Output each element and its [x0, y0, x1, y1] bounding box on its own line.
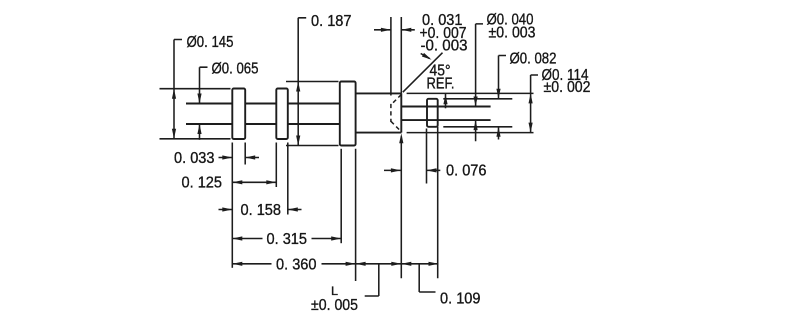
- ext line Ø0.114 top: [407, 92, 534, 94]
- ext line Ø0.145 top: [160, 88, 231, 90]
- shaft Ø0.065 segment left: [186, 104, 232, 125]
- 0.109 left arrow: [401, 262, 411, 266]
- dim 0.360 line: [232, 263, 355, 265]
- svg-text:0. 125: 0. 125: [182, 175, 223, 192]
- dim Ø0.114 leader+line: [531, 75, 538, 133]
- Ø0.145 dim down arrow bottom: [172, 129, 176, 139]
- dim 0.158 arrow tails: [219, 209, 302, 211]
- small up arrow on disc right ext: [399, 133, 403, 143]
- 0.031 right arrow: [381, 28, 391, 32]
- svg-text:Ø0. 065: Ø0. 065: [212, 61, 259, 78]
- dim 0.125 line: [232, 181, 276, 183]
- Ø0.082 bottom up arrow: [496, 127, 500, 137]
- 0.109 right arrow: [429, 262, 439, 266]
- Ø0.065 up arrow: [197, 124, 201, 134]
- dim body length line (L +/-0.005): [356, 263, 402, 265]
- svg-text:±0. 002: ±0. 002: [544, 79, 591, 96]
- leader +/-0.005: [365, 264, 379, 296]
- dim 0.315 line: [232, 238, 341, 240]
- ext flange2 left: [275, 143, 277, 188]
- ext line 0.031 left: [390, 17, 392, 96]
- Ø0.114 up arrow: [529, 93, 533, 103]
- Ø0.065 down arrow: [197, 94, 201, 104]
- 0.360 left arrow: [232, 262, 242, 266]
- svg-text:Ø0. 145: Ø0. 145: [187, 34, 234, 51]
- flange 2 (Ø0.145): [276, 89, 288, 140]
- dim 0.109 line: [401, 263, 438, 265]
- svg-text:0. 360: 0. 360: [276, 257, 317, 274]
- small up arrow near disc top: [443, 94, 447, 104]
- dim 0.031 arrow tails: [374, 29, 415, 31]
- ext line disc left (0.076): [426, 129, 428, 184]
- disc Ø0.082: [427, 99, 438, 127]
- ext flange3 right: [355, 149, 357, 281]
- Ø0.145 dim up arrow: [172, 89, 176, 99]
- dim Ø0.065 leader top: [200, 67, 208, 103]
- 0.187 up arrow: [296, 82, 300, 92]
- svg-text:±0. 005: ±0. 005: [311, 297, 358, 314]
- pin Ø0.040: [401, 107, 490, 121]
- leader 0.109: [419, 264, 435, 292]
- 0.315 right arrow: [331, 236, 341, 240]
- svg-text:REF.: REF.: [427, 76, 455, 93]
- 0.076 right arrow: [391, 168, 401, 172]
- svg-text:-0. 003: -0. 003: [421, 38, 468, 55]
- dim Ø0.040 leader: [476, 24, 483, 141]
- ext line 0.187 top: [286, 81, 339, 83]
- dim 0.076 arrow tails: [384, 169, 440, 171]
- dim Ø0.082 bottom stub: [498, 127, 500, 140]
- ext flange1 left: [231, 143, 233, 268]
- ext flange3 left: [340, 149, 342, 243]
- Ø0.040 up arrow: [474, 120, 478, 130]
- dim Ø0.082 leader: [499, 56, 507, 99]
- disc right ext line: [437, 127, 439, 278]
- svg-text:0. 315: 0. 315: [267, 231, 308, 248]
- ext line 0.187 bottom: [286, 145, 339, 147]
- small arrow stub near disc top: [445, 94, 447, 109]
- 45deg pointer arrow: [422, 53, 433, 62]
- svg-text:0. 109: 0. 109: [440, 291, 481, 308]
- Ø0.040 down arrow: [474, 97, 478, 107]
- 0.158 right arrow: [222, 207, 232, 211]
- ext flange2 right: [287, 143, 289, 215]
- body cylinder Ø0.114: [356, 93, 402, 132]
- ext line 0.031 right / face extension: [400, 17, 402, 278]
- svg-text:L: L: [331, 284, 338, 298]
- body length right arrow: [391, 262, 401, 266]
- dim Ø0.145 leader+line: [174, 40, 182, 139]
- 0.315 left arrow: [232, 236, 242, 240]
- 0.360 right arrow: [346, 262, 356, 266]
- flange 3 (Ø0.187): [340, 82, 356, 146]
- Ø0.114 down arrow: [529, 123, 533, 133]
- svg-text:0. 158: 0. 158: [241, 202, 282, 219]
- ext flange1 right: [244, 143, 246, 165]
- dim 0.187 leader+line: [298, 18, 306, 146]
- 0.158 left arrow: [288, 207, 298, 211]
- shaft segment between flange 2 and flange 3: [288, 104, 340, 125]
- 45 deg leader diagonal: [403, 53, 443, 92]
- svg-text:±0. 003: ±0. 003: [489, 25, 536, 42]
- 0.187 down arrow bottom: [296, 136, 300, 146]
- ext line Ø0.145 bottom: [160, 138, 231, 140]
- 0.076 left arrow: [427, 168, 437, 172]
- ext line disc bottom: [443, 126, 512, 128]
- svg-text:0. 033: 0. 033: [174, 150, 215, 167]
- 0.125 right arrow: [266, 180, 276, 184]
- shaft segment between flange 1 and flange 2: [245, 104, 276, 125]
- ext line Ø0.114 bottom: [407, 132, 534, 134]
- 0.033 left arrow: [245, 155, 255, 159]
- svg-text:0. 187: 0. 187: [311, 13, 352, 30]
- 45 deg small arrow line: [421, 54, 430, 59]
- ext line disc top: [443, 98, 512, 100]
- svg-text:0. 076: 0. 076: [446, 163, 487, 180]
- Ø0.082 leader down arrow: [496, 89, 500, 99]
- dim 0.033 arrow tails: [219, 157, 260, 159]
- 0.125 left arrow: [232, 180, 242, 184]
- hidden chamfer (dashed): [391, 95, 401, 132]
- flange 1 (Ø0.145): [232, 89, 245, 140]
- dim Ø0.065 stub bottom: [199, 124, 201, 140]
- 0.033 right arrow: [222, 155, 232, 159]
- body length left arrow: [356, 262, 366, 266]
- 0.031 left arrow: [401, 28, 411, 32]
- svg-text:Ø0. 082: Ø0. 082: [510, 51, 557, 68]
